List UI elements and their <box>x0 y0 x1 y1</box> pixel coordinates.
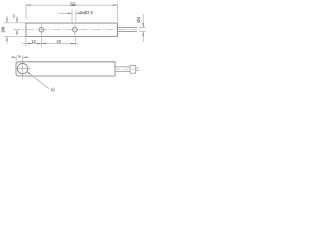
label 1) <box>51 87 56 92</box>
dimension 2xO2,5 (hole diameter) <box>59 10 81 22</box>
svg-text:20: 20 <box>56 39 61 44</box>
hole H2 vertical centerline <box>74 24 76 35</box>
label 20 <box>56 39 61 44</box>
svg-text:1): 1) <box>51 87 56 92</box>
wire stubs <box>136 68 139 70</box>
leader to note 1) <box>27 72 49 89</box>
svg-text:55: 55 <box>70 2 76 8</box>
label O4 <box>136 16 141 22</box>
svg-text:3: 3 <box>13 14 16 19</box>
hole H2 <box>73 27 78 32</box>
dimension 3 (hole axis offset) <box>16 16 18 36</box>
cable centerline (side view) <box>116 68 134 70</box>
dimension 55 (overall length) <box>26 4 118 22</box>
sensing circle (side view) <box>17 63 27 73</box>
dimension 10 (edge to hole H1) <box>23 38 42 46</box>
dimension 20 (hole spacing) <box>42 36 80 46</box>
svg-text:Ø8: Ø8 <box>1 26 6 32</box>
dimension O4 (cable diameter) <box>139 14 146 42</box>
svg-text:5: 5 <box>18 54 21 59</box>
cable (side view) <box>115 67 130 72</box>
label O8 <box>1 26 6 32</box>
label 10 <box>31 39 36 44</box>
svg-text:Ø4: Ø4 <box>136 16 141 22</box>
body outline (top view) <box>26 23 118 36</box>
hole H1 vertical centerline <box>41 24 43 35</box>
centerline (top view horizontal axis) <box>13 29 137 31</box>
label 2xO2,5 <box>80 10 94 15</box>
body outline (side view) <box>16 62 115 76</box>
label 55 <box>70 2 76 8</box>
label 3 <box>13 14 16 19</box>
hole H1 <box>39 27 44 32</box>
label 5 <box>18 54 21 59</box>
cable ferrule box <box>130 65 136 73</box>
sensing circle centerlines <box>16 55 31 79</box>
svg-text:10: 10 <box>31 39 36 44</box>
svg-text:2xØ2,5: 2xØ2,5 <box>80 10 94 15</box>
dimension O8 (body width) <box>4 16 27 44</box>
dimension 5 (edge to sensing axis) <box>12 55 29 61</box>
cable (top view) <box>118 28 138 32</box>
